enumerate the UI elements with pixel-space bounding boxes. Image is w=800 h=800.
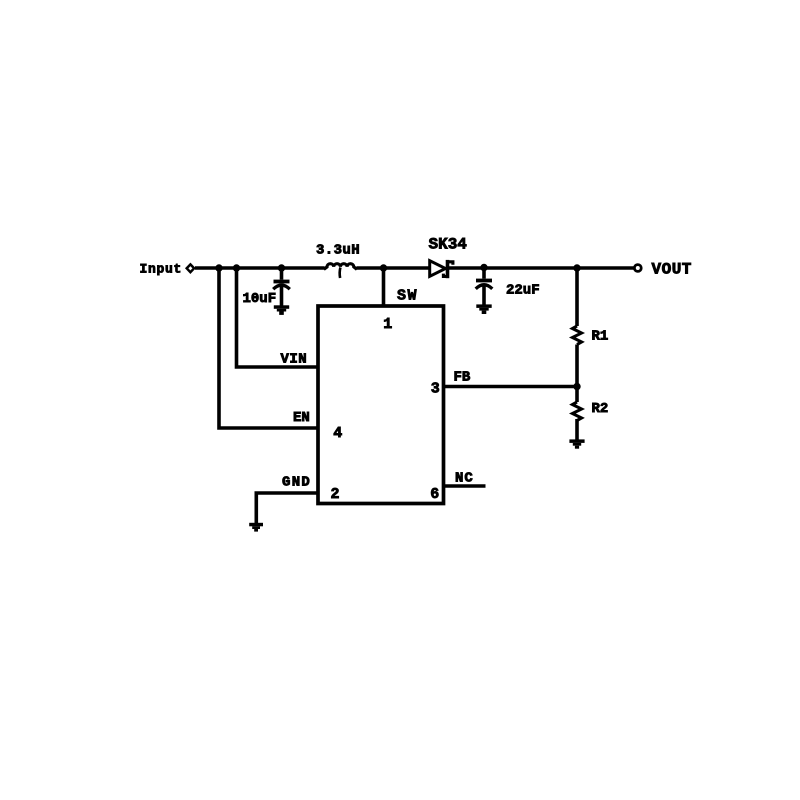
- svg-text:4: 4: [333, 425, 342, 442]
- svg-text:R1: R1: [592, 329, 609, 345]
- svg-text:GND: GND: [282, 475, 311, 491]
- svg-text:EN: EN: [293, 410, 310, 426]
- svg-text:1: 1: [383, 316, 392, 333]
- svg-text:R2: R2: [592, 401, 609, 417]
- svg-text:SK34: SK34: [429, 236, 468, 254]
- svg-text:VIN: VIN: [281, 352, 308, 368]
- svg-text:3: 3: [431, 381, 440, 398]
- svg-text:2: 2: [330, 486, 339, 503]
- svg-text:NC: NC: [455, 471, 474, 487]
- svg-text:FB: FB: [454, 370, 471, 386]
- svg-text:Input: Input: [140, 262, 183, 277]
- svg-text:6: 6: [430, 486, 439, 503]
- svg-text:SW: SW: [397, 288, 418, 305]
- svg-text:10uF: 10uF: [243, 291, 277, 307]
- svg-text:22uF: 22uF: [506, 283, 540, 299]
- svg-text:3.3uH: 3.3uH: [316, 243, 360, 259]
- svg-text:VOUT: VOUT: [652, 261, 692, 279]
